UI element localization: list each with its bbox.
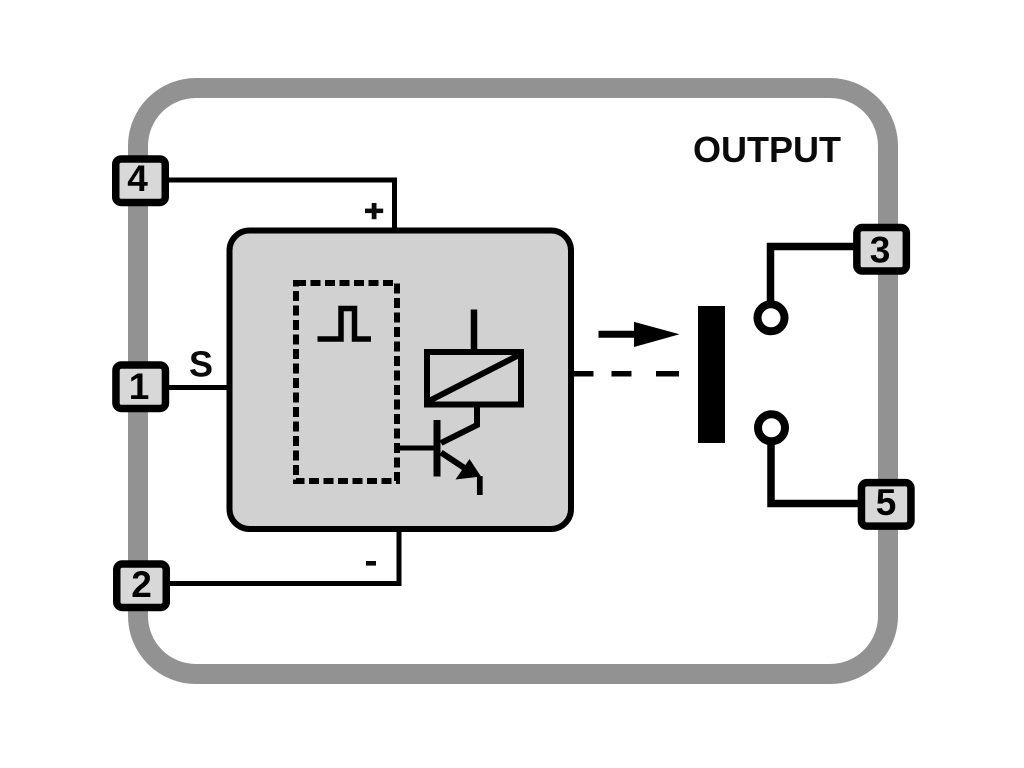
terminal pin 5: [861, 482, 911, 526]
transistor Q1 emitter stub: [477, 476, 483, 495]
dashed actuator link: [574, 371, 594, 377]
contact actuator bar: [698, 306, 725, 443]
svg-text:2: 2: [131, 564, 152, 605]
terminal pin 4: [116, 158, 166, 202]
svg-text:OUTPUT: OUTPUT: [693, 129, 841, 170]
control module box U1: [230, 231, 572, 530]
svg-text:4: 4: [127, 158, 148, 199]
wire contact to pin5: [771, 442, 861, 504]
svg-text:1: 1: [129, 366, 150, 407]
contact terminal circle (bottom): [758, 414, 785, 441]
actuation arrow: [599, 331, 641, 338]
timer block (dashed box): [296, 283, 397, 481]
wire pin1 signal S to module: [169, 385, 229, 390]
transistor Q1 base wire: [400, 446, 437, 451]
wire pin2 to module - (ground): [169, 532, 399, 584]
transistor Q1 emitter with arrow: [441, 453, 466, 470]
transistor Q1 base bar: [434, 420, 441, 477]
label +: [365, 209, 383, 214]
label -: [366, 561, 376, 566]
terminal pin 2: [117, 564, 167, 608]
pulse symbol: [318, 309, 372, 340]
relay coil K1: [427, 352, 521, 405]
svg-text:5: 5: [876, 482, 897, 523]
svg-text:S: S: [189, 343, 213, 384]
wire coil to transistor collector: [441, 404, 477, 443]
terminal pin 1: [116, 365, 166, 409]
svg-text:3: 3: [870, 229, 891, 270]
wire contact to pin3: [771, 247, 857, 303]
contact terminal circle (top): [758, 304, 785, 331]
relay coil K1 top lead: [471, 310, 478, 353]
relay housing outline: [138, 88, 888, 674]
terminal pin 3: [857, 228, 907, 271]
relay coil K1 diagonal: [429, 355, 519, 401]
wire pin4 to module + (positive supply): [169, 180, 395, 229]
